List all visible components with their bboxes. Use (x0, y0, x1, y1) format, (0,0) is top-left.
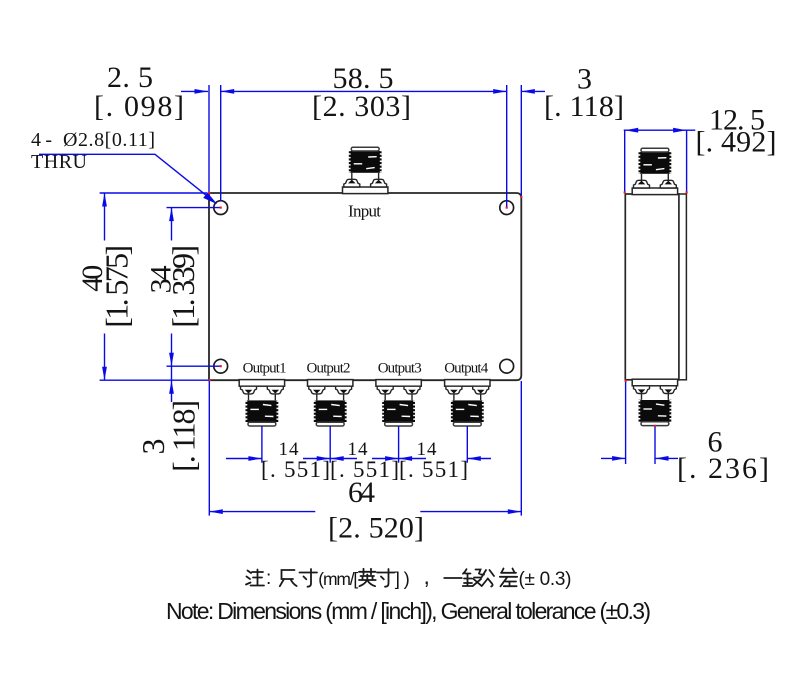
dim line 34 upper (171, 208, 173, 241)
svg-text:[. 118]: [. 118] (544, 90, 624, 123)
side bottom center line (654, 426, 656, 464)
hole top-right (500, 201, 514, 215)
output center line 1 (261, 426, 263, 463)
leader line hole note (39, 154, 214, 201)
arrow 34 top (169, 208, 174, 222)
arrow 34 bottom (169, 353, 174, 367)
output center line 4 (466, 426, 468, 463)
glyph yi (444, 577, 462, 579)
ext line left edge top (208, 85, 210, 192)
output SMA connector J4 (376, 380, 421, 426)
ext line 12.5 right (686, 130, 688, 192)
hole bottom-left (214, 359, 228, 373)
arrow 58.5 left (221, 89, 235, 94)
dim line 40 upper (104, 193, 106, 241)
ext line 34 bottom (167, 365, 221, 367)
dim line 12.5 (624, 129, 696, 131)
leader arrowhead (203, 193, 217, 205)
svg-text:(mm/[: (mm/[ (318, 569, 358, 589)
svg-text:Input: Input (348, 202, 381, 221)
dim line 64 left segment (209, 511, 315, 513)
dim line 14 b (303, 458, 357, 460)
arrow 6 right (655, 456, 669, 461)
glyph cun1 (300, 569, 318, 587)
arrow 14d left (467, 456, 481, 461)
dim line 14 a (226, 458, 262, 460)
svg-text:Output4: Output4 (444, 361, 489, 377)
ext line left hole top (220, 85, 222, 201)
hole top-left (214, 201, 228, 215)
arrow 40 top (102, 193, 107, 207)
ext line right edge top (520, 85, 522, 197)
arrow 12.5 left (625, 128, 639, 133)
svg-text:[. 236]: [. 236] (677, 452, 769, 485)
svg-text::: : (266, 568, 271, 589)
svg-text:,: , (424, 563, 430, 589)
svg-text:THRU: THRU (31, 151, 88, 173)
glyph chi (280, 570, 297, 586)
side top SMA connector (632, 148, 677, 194)
output SMA connector J3 (308, 380, 353, 426)
arrow 58.5 right (493, 89, 507, 94)
svg-text:4-: 4- (31, 129, 52, 151)
svg-text:(± 0.3): (± 0.3) (519, 569, 572, 590)
ext line 40 top (100, 192, 208, 194)
output SMA connector J2 (239, 380, 284, 426)
svg-text:[. 118]: [. 118] (166, 400, 202, 472)
note line 1 CJK strokes (246, 569, 517, 587)
svg-text:[1. 339]: [1. 339] (165, 245, 201, 328)
arrow 14 pair at line2 (330, 456, 344, 461)
glyph zhu (246, 570, 264, 586)
dim line 14 d (467, 458, 491, 460)
red endpoint marks (208, 192, 210, 194)
svg-text:[2. 303]: [2. 303] (312, 90, 411, 123)
side bottom SMA connector (632, 379, 677, 425)
ext line 40 bottom (100, 379, 212, 381)
glyph cun2 (377, 569, 395, 587)
dim line 3 left tail (171, 366, 173, 402)
arrow 6 left (612, 456, 626, 461)
svg-text:[. 551]: [. 551] (399, 457, 468, 482)
arrow 14a right (248, 456, 262, 461)
svg-text:[. 492]: [. 492] (696, 126, 777, 159)
output SMA connector J5 (445, 380, 490, 426)
input SMA connector J1 (343, 147, 388, 193)
dim line 34 lower (171, 334, 173, 367)
front view body outline (209, 193, 521, 380)
svg-text:Output3: Output3 (378, 361, 422, 377)
dim line 6 tail left (601, 457, 626, 459)
arrow 2.5 left (195, 89, 209, 94)
svg-text:Output1: Output1 (243, 361, 287, 377)
glyph ban (463, 569, 484, 586)
svg-text:[. 098]: [. 098] (94, 90, 184, 123)
svg-text:[1. 575]: [1. 575] (99, 245, 135, 328)
hole bottom-right (500, 359, 514, 373)
glyph cha (500, 569, 517, 587)
dim line 40 lower (104, 334, 106, 381)
svg-text:[2. 520]: [2. 520] (328, 512, 424, 545)
dim line 3 tail (521, 90, 545, 92)
output center line 3 (398, 426, 400, 463)
output center line 2 (329, 426, 331, 463)
arrow 64 left (209, 509, 223, 514)
glyph gong (482, 570, 494, 587)
svg-text:Note: Dimensions (mm / [inch]): Note: Dimensions (mm / [inch]), General … (166, 598, 651, 624)
dim line 58.5 (221, 90, 507, 92)
svg-text:Output2: Output2 (307, 361, 351, 377)
ext line 34 top (167, 207, 221, 209)
svg-text:Ø2.8[0.11]: Ø2.8[0.11] (63, 129, 155, 151)
svg-text:[. 551]: [. 551] (261, 457, 330, 482)
ext line 64 left (208, 381, 210, 516)
arrow 3 right (521, 89, 535, 94)
svg-text:64: 64 (348, 476, 375, 509)
dim line 14 c (372, 458, 426, 460)
dim line 64 right segment (420, 511, 521, 513)
arrow 3 bottom-left up (169, 380, 174, 394)
dim line 6 tail right (655, 457, 678, 459)
ext line 6 left (625, 381, 627, 464)
arrow 12.5 right (673, 128, 687, 133)
glyph ying (359, 569, 376, 586)
ext line 12.5 left (624, 130, 626, 192)
side view cover plate (679, 194, 686, 380)
side view body outline (625, 194, 679, 380)
arrow 40 bottom (102, 367, 107, 381)
arrow 64 right (508, 509, 522, 514)
dim line 2.5 tail (181, 90, 208, 92)
arrow 14 pair at line3 (399, 456, 413, 461)
ext line 64 right (520, 381, 522, 516)
ext line right hole top (506, 85, 508, 208)
svg-text:]): ]) (395, 568, 410, 589)
